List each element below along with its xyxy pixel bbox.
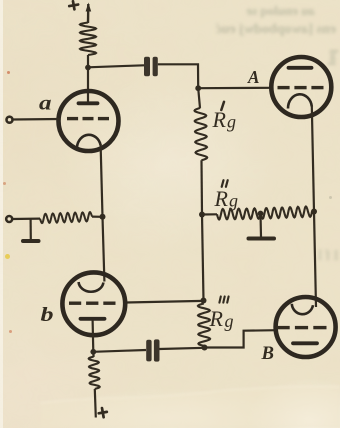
wire N4 to ground <box>259 214 262 238</box>
triode B <box>276 297 336 357</box>
svg-text:a: a <box>39 93 52 115</box>
wire N9 to capacitor C2 <box>93 350 146 352</box>
wire left rail N8 to cathode of b <box>103 217 105 282</box>
wire Rg' to node N3 <box>200 160 203 214</box>
wire top arrow to resistor R1 <box>86 3 92 24</box>
node N9 (anode of b / C2) <box>90 349 96 355</box>
supply terminal + (bottom) <box>98 407 108 418</box>
wire N3 to node N6 <box>202 215 204 301</box>
wire N2 to Rg-prime <box>198 88 200 108</box>
svg-text:g: g <box>229 191 238 211</box>
terminal (bias input) <box>6 216 12 222</box>
node N5 (right rail / Rg-doubleprime) <box>311 209 317 215</box>
svg-text:g: g <box>225 311 234 331</box>
triode b <box>62 272 125 335</box>
svg-text:R: R <box>209 306 224 331</box>
resistor Rg''' <box>198 304 210 347</box>
resistor R2 (anode load of triode b) <box>89 357 100 390</box>
bleed-through text line 1 <box>185 3 315 19</box>
resistor R1 (anode load of triode a) <box>80 23 96 56</box>
svg-text:g: g <box>227 112 236 132</box>
wire N7 to grid of triode B <box>205 330 278 347</box>
ground (right) <box>249 237 275 241</box>
bleed-through mark lower right <box>303 248 339 265</box>
node N6 (grid of b / Rg-tripleprime) <box>201 298 207 304</box>
wire terminal to bias resistor <box>12 218 40 221</box>
input terminal (grid of a) <box>7 117 13 123</box>
node N7 (Rg-tripleprime bottom / coupling line) <box>202 345 208 351</box>
resistor Rg' <box>195 108 208 160</box>
wire right rail N5 to cathode of B <box>314 212 316 308</box>
capacitor C1 <box>144 57 158 77</box>
bleed-through text line 2 <box>146 22 336 38</box>
wire cathode of a down left rail <box>101 144 103 217</box>
svg-text:R: R <box>212 107 227 132</box>
wire Rk to N8 <box>92 216 103 218</box>
svg-text:B: B <box>261 343 274 364</box>
node N8 (cathode rail / bias resistor) <box>100 214 106 220</box>
triode A <box>271 57 331 117</box>
resistor Rg'' (left half) <box>217 208 261 219</box>
resistor Rg'' (right half) <box>261 207 313 219</box>
svg-text:R: R <box>214 186 229 211</box>
ground (left) <box>23 239 39 243</box>
bleed-through mark right edge <box>325 50 340 70</box>
wire C1 to node N2 <box>158 64 198 88</box>
supply terminal + (top) <box>69 0 79 10</box>
node N3 (Rg-prime / Rg-doubleprime junction) <box>199 212 205 218</box>
node N1 (anode of a / C1) <box>85 65 91 71</box>
node N2 (grid of A / Rg-prime) <box>195 85 201 91</box>
wire N3 to Rg'' <box>202 213 217 215</box>
wire terminal to grid of a <box>12 118 60 121</box>
resistor Rk (bias) <box>40 212 92 223</box>
paper edge highlight <box>0 0 3 428</box>
node N4 (center tap of Rg-doubleprime) <box>258 211 264 217</box>
svg-text:A: A <box>247 67 259 87</box>
capacitor C2 <box>146 339 159 361</box>
paper specks <box>5 254 10 259</box>
svg-text:b: b <box>41 304 54 326</box>
wire anode of b to node N9 <box>91 320 94 352</box>
wire cathode of A down right rail <box>312 106 314 212</box>
wire N1 to capacitor C1 <box>88 65 144 67</box>
wire N6 to grid of triode b <box>125 301 204 303</box>
label Rg'' <box>214 180 239 211</box>
triode a <box>59 91 119 151</box>
wire N2 to grid of triode A <box>198 87 272 90</box>
wire N9 to R2 <box>92 352 94 357</box>
wire C2 to N7 <box>160 348 205 349</box>
wire R2 to supply + (bottom) <box>95 389 96 418</box>
label Rg''' <box>209 297 234 332</box>
label Rg' <box>212 102 237 132</box>
wire bias tap to ground <box>30 219 32 240</box>
wire N1 to anode of a <box>87 68 89 103</box>
wire R1 to node N1 <box>87 55 89 68</box>
